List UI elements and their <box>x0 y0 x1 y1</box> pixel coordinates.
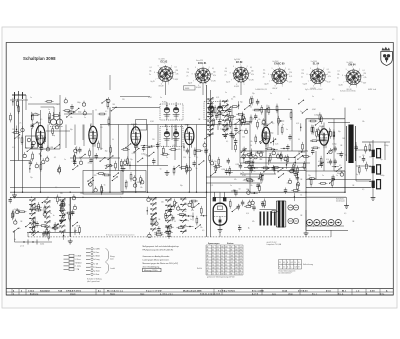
svg-text:0,5: 0,5 <box>55 187 57 189</box>
output stage components <box>327 128 347 165</box>
svg-text:30p: 30p <box>52 135 55 137</box>
svg-text:30p: 30p <box>257 153 260 155</box>
svg-text:10k: 10k <box>140 187 143 189</box>
svg-text:Uf 6,3V: Uf 6,3V <box>347 89 352 91</box>
svg-text:E: E <box>279 267 280 269</box>
svg-text:EM 84: EM 84 <box>349 64 357 67</box>
wire vert x265 <box>264 109 266 126</box>
wire vert x220m <box>219 224 221 227</box>
svg-text:gemessen: Gleichspannung 220 V: gemessen: Gleichspannung 220 Volt <box>207 276 235 279</box>
svg-text:1n: 1n <box>64 159 66 161</box>
svg-text:12: 12 <box>231 246 233 248</box>
svg-text:2,1: 2,1 <box>207 267 209 269</box>
svg-text:2n: 2n <box>282 124 284 126</box>
tube socket EABC 80 <box>263 61 293 90</box>
svg-text:2n: 2n <box>187 76 189 78</box>
wire main top bus y124.5 <box>100 124 250 126</box>
svg-text:ECH 81: ECH 81 <box>198 62 207 65</box>
svg-text:220: 220 <box>100 127 103 129</box>
wire output line 2 <box>306 187 371 189</box>
svg-text:47k: 47k <box>252 221 255 223</box>
svg-text:ohne Vorabklingung.: ohne Vorabklingung. <box>143 265 161 268</box>
svg-text:0,6: 0,6 <box>217 267 219 269</box>
svg-text:„Aus“ gezeichnet: „Aus“ gezeichnet <box>87 280 100 283</box>
wire vert left3 <box>22 100 24 192</box>
wire vert x206 <box>206 85 208 237</box>
svg-text:Laufst gegen Masse gemessen.: Laufst gegen Masse gemessen. <box>143 259 170 262</box>
svg-text:4,5: 4,5 <box>225 270 227 272</box>
svg-text:0,5: 0,5 <box>247 123 249 125</box>
svg-text:A 1 9 8: A 1 9 8 <box>252 293 258 296</box>
svg-text:2x30p: 2x30p <box>332 144 336 146</box>
svg-text:70p: 70p <box>35 113 38 115</box>
antenna symbol <box>12 91 26 99</box>
svg-text:2,1: 2,1 <box>221 255 223 257</box>
svg-text:50: 50 <box>112 139 114 141</box>
speaker LS3 <box>369 180 380 189</box>
UKW box <box>121 171 146 192</box>
svg-text:W e r k A l t e n a: W e r k A l t e n a <box>107 290 124 293</box>
svg-text:Uosz 95V: Uosz 95V <box>196 60 204 62</box>
wire heater rail <box>306 230 348 232</box>
svg-text:25µ: 25µ <box>238 133 241 135</box>
svg-text:0,5: 0,5 <box>362 189 364 191</box>
svg-text:8µ: 8µ <box>327 162 329 164</box>
wire bus y183 <box>206 182 262 184</box>
svg-text:1n: 1n <box>336 175 338 177</box>
wire vert x31 <box>31 128 33 149</box>
svg-text:0,1: 0,1 <box>150 67 152 69</box>
svg-text:1n: 1n <box>190 219 192 221</box>
ground G2 <box>68 239 73 244</box>
em84 right parts <box>229 199 253 232</box>
svg-text:4,5: 4,5 <box>225 264 227 266</box>
svg-text:0,6: 0,6 <box>217 261 219 263</box>
svg-text:Name: Name <box>110 294 115 296</box>
svg-text:65: 65 <box>207 273 209 275</box>
svg-text:10k: 10k <box>250 141 253 143</box>
svg-text:10k: 10k <box>362 121 365 123</box>
svg-text:2n: 2n <box>324 140 326 142</box>
svg-text:Ug2 = 250 V Ua = 250 V: Ug2 = 250 V Ua = 250 V <box>305 89 323 91</box>
svg-text:5k: 5k <box>44 225 46 227</box>
svg-text:220: 220 <box>183 157 186 159</box>
svg-text:47k: 47k <box>18 228 21 230</box>
svg-text:0,1: 0,1 <box>250 67 252 69</box>
svg-text:85: 85 <box>240 270 242 272</box>
svg-text:85: 85 <box>231 267 233 269</box>
ground G4 <box>218 227 223 232</box>
el84 cathode parts <box>311 148 342 172</box>
svg-text:8µ: 8µ <box>120 197 122 199</box>
mains switch contact stack <box>260 210 276 226</box>
wire vert x66 <box>65 125 67 149</box>
svg-text:2x30p: 2x30p <box>269 133 273 135</box>
svg-text:Urspr.: Urspr. <box>288 293 294 296</box>
svg-text:85: 85 <box>207 264 209 266</box>
wire vert x54 <box>53 107 55 119</box>
neg feedback components <box>308 171 344 188</box>
wire bus y165 mid <box>120 165 168 167</box>
svg-text:0,25: 0,25 <box>216 97 219 99</box>
svg-text:12: 12 <box>217 270 219 272</box>
svg-text:47k: 47k <box>88 163 91 165</box>
svg-text:2x30p: 2x30p <box>380 175 384 177</box>
svg-text:100p: 100p <box>184 203 188 205</box>
wire vert antenna <box>14 95 16 192</box>
svg-text:Ug 2V: Ug 2V <box>339 84 343 86</box>
wire horiz y131 l <box>46 130 70 132</box>
svg-text:70p: 70p <box>284 157 287 159</box>
wire horiz y114 l <box>64 113 92 115</box>
ground G8 <box>304 231 309 236</box>
svg-text:65: 65 <box>221 264 223 266</box>
svg-text:220: 220 <box>364 73 367 75</box>
svg-text:0,25: 0,25 <box>17 137 20 139</box>
svg-text:47k: 47k <box>178 149 181 151</box>
ratio detector box <box>136 120 147 131</box>
svg-text:25µ: 25µ <box>130 159 133 161</box>
dial lamp heater chain <box>306 220 344 227</box>
wire bus y158 <box>70 157 120 159</box>
wire vert x135t <box>135 145 137 192</box>
svg-text:6,3: 6,3 <box>295 267 297 269</box>
svg-text:8µ: 8µ <box>302 167 304 169</box>
svg-text:47k: 47k <box>261 202 264 204</box>
tone switch ladder S7 <box>165 198 172 233</box>
svg-text:220: 220 <box>122 99 125 101</box>
demod components <box>95 97 117 126</box>
svg-text:g Taste: g Taste <box>94 270 99 273</box>
svg-text:1n: 1n <box>270 93 272 95</box>
IF transformer Fi1 <box>160 102 183 120</box>
tube V2 input <box>89 123 97 146</box>
wire anode bus y107.5 <box>112 107 160 109</box>
wire vert x210 <box>210 90 212 237</box>
svg-text:0,25: 0,25 <box>172 145 175 147</box>
kb extra parts <box>32 202 75 237</box>
svg-text:65: 65 <box>212 255 214 257</box>
legend switch table <box>64 254 83 271</box>
svg-text:G R A E T Z K G: G R A E T Z K G <box>66 290 81 293</box>
svg-text:100p: 100p <box>30 159 34 161</box>
svg-text:HF=Spannungs 417-472 (F=432) H: HF=Spannungs 417-472 (F=432) Hz <box>143 249 174 251</box>
svg-text:0,25: 0,25 <box>12 147 15 149</box>
svg-text:30p: 30p <box>238 205 241 207</box>
svg-text:250: 250 <box>240 249 243 251</box>
svg-text:0,5: 0,5 <box>359 156 361 158</box>
svg-text:Uf 6,3V: Uf 6,3V <box>159 86 164 88</box>
svg-text:4,5: 4,5 <box>207 261 209 263</box>
svg-text:6,3V: 6,3V <box>175 79 178 81</box>
svg-text:5k: 5k <box>104 185 106 187</box>
svg-text:250: 250 <box>221 246 224 248</box>
magic eye anode caps <box>213 192 227 201</box>
tube socket EL 84 <box>301 61 331 90</box>
svg-text:5n: 5n <box>185 211 187 213</box>
svg-text:L Lang: L Lang <box>76 266 81 268</box>
svg-text:8µ: 8µ <box>102 190 104 192</box>
svg-text:Lämpchen 7V 0,3A: Lämpchen 7V 0,3A <box>267 243 282 246</box>
svg-text:1,2: 1,2 <box>221 252 223 254</box>
svg-text:220: 220 <box>338 169 341 171</box>
svg-text:5n: 5n <box>50 213 52 215</box>
det out parts <box>209 153 240 176</box>
svg-text:8µ: 8µ <box>39 154 41 156</box>
svg-text:85: 85 <box>240 264 242 266</box>
wire rail right A <box>206 191 345 193</box>
svg-text:0,6: 0,6 <box>240 273 242 275</box>
svg-text:47k: 47k <box>191 210 194 212</box>
svg-text:EC92: EC92 <box>36 123 41 125</box>
wire vert x345 <box>344 108 346 193</box>
wire vert speaker feed <box>372 140 374 195</box>
svg-text:85: 85 <box>235 258 237 260</box>
svg-text:50: 50 <box>174 221 176 223</box>
coil pack box <box>83 171 123 195</box>
svg-text:85: 85 <box>235 261 237 263</box>
svg-text:25µ: 25µ <box>340 172 343 174</box>
wire af y174 <box>240 173 276 175</box>
svg-text:10k: 10k <box>246 189 249 191</box>
svg-text:12k: 12k <box>337 74 340 76</box>
mixer stage components <box>72 141 117 171</box>
af dense B <box>285 142 311 173</box>
svg-text:250: 250 <box>225 267 228 269</box>
svg-text:30p: 30p <box>338 131 341 133</box>
svg-text:K Kurz: K Kurz <box>76 258 81 261</box>
output transformer T2 <box>347 125 356 164</box>
svg-text:d Lang: d Lang <box>94 259 99 261</box>
svg-text:2n: 2n <box>322 175 324 177</box>
svg-text:Ua 250V: Ua 250V <box>347 62 354 64</box>
svg-text:5n: 5n <box>225 92 227 94</box>
svg-text:4,7k: 4,7k <box>289 76 292 78</box>
svg-text:47k: 47k <box>316 129 319 131</box>
dashed chassis line <box>28 236 331 238</box>
svg-text:85: 85 <box>207 246 209 248</box>
power transformer T3 <box>276 201 286 228</box>
svg-text:5n: 5n <box>189 157 191 159</box>
svg-text:4,5: 4,5 <box>217 258 219 260</box>
wire vert x48 <box>47 125 49 151</box>
svg-text:170: 170 <box>235 273 238 275</box>
svg-text:2n: 2n <box>84 117 86 119</box>
svg-text:1n: 1n <box>30 97 32 99</box>
AF coupling components <box>240 151 298 175</box>
wire horiz y100 l <box>10 99 28 101</box>
svg-text:E: E <box>299 262 300 264</box>
wire vert x93t <box>92 144 94 193</box>
svg-text:1,2: 1,2 <box>217 273 219 275</box>
svg-text:0,1: 0,1 <box>226 141 228 143</box>
svg-text:85: 85 <box>231 249 233 251</box>
wire vert x60 <box>59 110 61 149</box>
svg-text:EF 89: EF 89 <box>236 61 243 64</box>
wire vert x165s <box>165 82 167 96</box>
svg-text:2n: 2n <box>149 74 151 76</box>
detector components <box>169 142 208 176</box>
svg-text:2,1: 2,1 <box>212 246 214 248</box>
svg-text:Ug 2V: Ug 2V <box>264 83 268 85</box>
svg-text:220: 220 <box>80 193 83 195</box>
svg-text:1,2: 1,2 <box>212 264 214 266</box>
svg-text:Datum: Datum <box>70 293 76 296</box>
svg-text:2n: 2n <box>337 77 339 79</box>
svg-text:2,1: 2,1 <box>217 252 219 254</box>
svg-text:0,6: 0,6 <box>240 267 242 269</box>
svg-text:0,25: 0,25 <box>132 153 135 155</box>
rail junction dots <box>14 192 346 198</box>
svg-text:0,1: 0,1 <box>152 203 154 205</box>
tube V7 EM84 magic eye <box>213 203 227 225</box>
svg-text:Meßgespannt: hell und dunkel-A: Meßgespannt: hell und dunkel-Ausgleichsp… <box>143 245 180 248</box>
antenna trimmer <box>27 138 31 142</box>
svg-text:220: 220 <box>161 202 164 204</box>
svg-text:30p: 30p <box>240 101 243 103</box>
svg-text:Ua 250V: Ua 250V <box>272 61 279 63</box>
svg-text:f Gramm.: f Gramm. <box>94 266 102 269</box>
svg-text:h Netz: h Netz <box>94 273 99 276</box>
ground G3 <box>121 166 126 171</box>
svg-text:6,3V: 6,3V <box>327 81 330 83</box>
svg-text:25µ: 25µ <box>308 175 311 177</box>
svg-text:5n: 5n <box>310 141 312 143</box>
svg-text:5n: 5n <box>286 129 288 131</box>
coil pack contents <box>87 172 119 195</box>
svg-text:10k: 10k <box>200 227 203 229</box>
svg-text:2x30p: 2x30p <box>53 225 57 227</box>
wire main rail B <box>10 196 206 198</box>
wire vert x128 <box>127 125 129 166</box>
svg-text:10k: 10k <box>70 117 73 119</box>
svg-text:2,1: 2,1 <box>221 261 223 263</box>
svg-text:Fi 460: Fi 460 <box>162 102 167 104</box>
wire vert x266t <box>265 144 267 171</box>
svg-text:B/Tastatur von der Rückseite g: B/Tastatur von der Rückseite gesehen <box>106 234 135 237</box>
manufacturer crest logo <box>381 47 393 66</box>
tube V4 EF89 <box>185 124 194 147</box>
wire vert x292 <box>291 109 293 151</box>
svg-text:S u p e r 1 7 6 W: S u p e r 1 7 6 W <box>146 291 161 293</box>
wire det bus y151 <box>240 150 308 152</box>
agc components <box>298 100 322 135</box>
svg-text:65: 65 <box>212 261 214 263</box>
svg-text:0,1: 0,1 <box>288 69 290 71</box>
svg-text:Uf 6,3V: Uf 6,3V <box>234 86 239 88</box>
speaker LS1 <box>369 149 380 158</box>
svg-text:0,1: 0,1 <box>175 67 177 69</box>
wire horiz y104 l <box>28 103 60 105</box>
svg-text:5n: 5n <box>160 97 162 99</box>
svg-text:Ua 250V: Ua 250V <box>159 59 166 61</box>
svg-text:85: 85 <box>221 267 223 269</box>
tone switch ladder S8 <box>180 198 187 234</box>
svg-text:Ug 2V: Ug 2V <box>226 82 230 84</box>
wire bus y109 right <box>255 108 292 110</box>
svg-text:2x30p: 2x30p <box>204 149 208 151</box>
svg-text:0,1: 0,1 <box>212 68 214 70</box>
svg-text:b: b <box>13 294 14 296</box>
legend pushbutton list <box>86 248 116 277</box>
band switch bank <box>204 96 239 139</box>
svg-text:2n: 2n <box>225 75 227 77</box>
svg-text:0,25: 0,25 <box>318 161 321 163</box>
osc coil components <box>229 126 247 152</box>
svg-text:EC 92: EC 92 <box>161 60 168 63</box>
svg-text:10k: 10k <box>362 155 365 157</box>
svg-text:0,1: 0,1 <box>54 198 56 200</box>
svg-text:70p: 70p <box>262 206 265 208</box>
svg-text:a 3 4: a 3 4 <box>20 246 24 248</box>
keyboard ladder S3 <box>29 198 36 234</box>
svg-text:M Mittel: M Mittel <box>76 261 83 264</box>
svg-text:4,7k: 4,7k <box>251 74 254 76</box>
svg-text:98: 98 <box>225 261 227 263</box>
svg-text:b Kurz: b Kurz <box>94 251 99 254</box>
wire vert x203s <box>202 83 204 95</box>
svg-text:0,5: 0,5 <box>202 230 204 232</box>
svg-text:4,7k: 4,7k <box>358 109 361 111</box>
svg-text:220: 220 <box>233 190 236 192</box>
wire vert x175 <box>174 125 176 161</box>
tube socket EF 89 <box>225 59 255 88</box>
svg-text:100p: 100p <box>337 173 341 175</box>
svg-text:5k: 5k <box>263 130 265 132</box>
wire vert x278 <box>277 109 279 135</box>
svg-text:c Mittel: c Mittel <box>94 255 100 258</box>
svg-text:Ug 2V: Ug 2V <box>188 83 192 85</box>
svg-text:10k: 10k <box>258 119 261 121</box>
svg-text:Ug 2V: Ug 2V <box>303 83 307 85</box>
svg-text:Änderung: Änderung <box>30 293 38 296</box>
svg-text:4,5: 4,5 <box>212 270 214 272</box>
svg-text:4,7k: 4,7k <box>262 157 265 159</box>
wire bus y149 <box>30 148 60 150</box>
wire vert x334 <box>333 119 335 171</box>
osc grid parts <box>238 96 259 126</box>
svg-text:5n: 5n <box>312 96 314 98</box>
svg-text:0,1: 0,1 <box>327 69 329 71</box>
svg-text:1,2: 1,2 <box>240 246 242 248</box>
svg-text:70p: 70p <box>380 159 383 161</box>
svg-text:Ug 2V: Ug 2V <box>151 81 155 83</box>
svg-text:2n: 2n <box>20 123 22 125</box>
svg-text:taste: taste <box>110 257 114 260</box>
svg-text:0,1: 0,1 <box>283 262 285 264</box>
svg-text:0,6: 0,6 <box>217 246 219 248</box>
svg-text:250: 250 <box>212 267 215 269</box>
title block strip <box>6 289 393 296</box>
svg-text:E: E <box>287 262 288 264</box>
svg-text:85: 85 <box>225 258 227 260</box>
speaker LS2 <box>369 165 380 174</box>
psu right parts <box>284 171 302 202</box>
svg-text:2n: 2n <box>301 76 303 78</box>
svg-text:0,25: 0,25 <box>296 123 299 125</box>
svg-text:250: 250 <box>240 252 243 254</box>
svg-text:220: 220 <box>287 183 290 185</box>
wire vert x241s <box>240 82 242 95</box>
svg-text:65: 65 <box>212 249 214 251</box>
wire vert ant2 <box>18 95 20 161</box>
svg-text:E: E <box>295 262 296 264</box>
svg-text:0,1: 0,1 <box>338 71 340 73</box>
svg-text:220: 220 <box>152 139 155 141</box>
wire vert x189t <box>188 145 190 193</box>
keyboard switch contacts <box>25 194 80 240</box>
svg-text:EABC 80: EABC 80 <box>274 63 285 66</box>
